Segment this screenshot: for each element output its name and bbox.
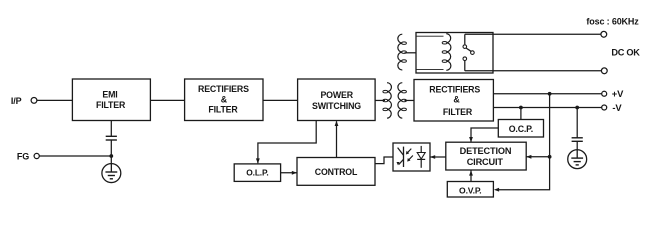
arrow O.V.P. into DETECTION bottom: [469, 170, 473, 175]
arrow opto output to detection: [430, 155, 435, 159]
block EMI FILTER: [72, 79, 150, 121]
wire relay to DC OK + terminal: [465, 33, 601, 35]
block CONTROL: [297, 158, 375, 186]
wire -V rail: [493, 107, 601, 109]
block O.C.P.: [498, 120, 543, 138]
svg-text:RECTIFIERS: RECTIFIERS: [198, 84, 249, 94]
capacitor Y-cap under EMI filter: [110, 121, 112, 137]
wire O.C.P. to detection circuit: [471, 128, 498, 142]
svg-text:DETECTION: DETECTION: [460, 146, 512, 156]
arrow into POWER SWITCHING: [335, 121, 339, 126]
terminal +V: [602, 91, 607, 96]
relay coil inside aux block: [416, 35, 444, 37]
arrow into O.L.P.: [256, 158, 260, 163]
block DC OK relay / aux circuit: [416, 33, 493, 74]
junction -V to O.C.P.: [519, 106, 523, 110]
svg-text:FILTER: FILTER: [208, 105, 238, 115]
svg-text:CIRCUIT: CIRCUIT: [467, 157, 504, 167]
wire power switching down to O.L.P.: [258, 121, 316, 164]
junction -V to output cap: [575, 106, 579, 110]
wire I/P to EMI FILTER: [37, 99, 73, 101]
svg-text:FILTER: FILTER: [96, 100, 126, 110]
terminal DC OK bottom: [601, 68, 607, 74]
svg-text:DC OK: DC OK: [611, 47, 640, 57]
wire opto to detection circuit: [430, 156, 446, 158]
svg-text:+V: +V: [612, 88, 624, 99]
svg-text:O.L.P.: O.L.P.: [246, 168, 268, 178]
opto light arrows: [407, 149, 411, 154]
ground earth symbol (output): [568, 150, 587, 169]
block POWER SWITCHING: [298, 79, 376, 121]
junction FG node: [109, 154, 113, 158]
svg-text:CONTROL: CONTROL: [315, 167, 358, 177]
arrow into DETECTION top: [469, 137, 473, 142]
block DETECTION CIRCUIT: [446, 142, 526, 170]
transformer T1 auxiliary winding: [398, 34, 402, 70]
svg-text:O.C.P.: O.C.P.: [509, 124, 533, 134]
ground earth symbol (input): [102, 164, 121, 183]
svg-text:POWER: POWER: [320, 90, 353, 100]
wire cap to FG junction and ground: [110, 140, 112, 164]
wire +V sense down to O.V.P. feed: [498, 94, 550, 190]
block RECTIFIERS & FILTER (output): [414, 80, 493, 122]
terminal I/P: [31, 98, 37, 104]
transformer T1 primary winding: [375, 99, 385, 101]
block RECTIFIERS & FILTER (input): [185, 79, 263, 121]
terminal FG: [34, 153, 39, 158]
block O.V.P.: [447, 182, 493, 198]
wire CONTROL up to power switching: [336, 121, 338, 157]
block O.L.P.: [234, 164, 280, 182]
wire relay to DC OK - terminal: [465, 70, 602, 72]
junction sense node: [548, 155, 552, 159]
arrow into DETECTION right: [526, 155, 531, 159]
svg-text:RECTIFIERS: RECTIFIERS: [429, 84, 480, 94]
opto phototransistor: [403, 147, 405, 167]
svg-text:EMI: EMI: [102, 90, 117, 100]
svg-text:fosc : 60KHz: fosc : 60KHz: [586, 16, 639, 26]
junction +V sense: [548, 92, 552, 96]
svg-text:&: &: [453, 94, 460, 104]
svg-text:O.V.P.: O.V.P.: [459, 185, 482, 195]
wire O.L.P. to CONTROL: [281, 172, 297, 174]
wire +V rail: [493, 93, 601, 95]
opto-coupler U1: [393, 143, 430, 171]
wire cap to ground: [576, 141, 578, 150]
wire -V down to O.C.P.: [520, 108, 522, 120]
wire O.V.P. up to detection: [470, 170, 472, 181]
wire CONTROL to opto-coupler: [375, 157, 393, 164]
svg-text:-V: -V: [612, 102, 622, 113]
wire rectifiers to power switching: [263, 99, 298, 101]
arrow into CONTROL: [292, 171, 297, 175]
transformer T1 secondary winding: [398, 83, 402, 119]
wire -V down to output cap: [576, 108, 578, 138]
wire detection to sense rail: [526, 156, 549, 158]
relay contact switch: [464, 34, 466, 44]
capacitor output filter: [572, 137, 583, 139]
arrow into O.V.P.: [494, 188, 499, 192]
svg-text:SWITCHING: SWITCHING: [312, 101, 361, 111]
terminal DC OK top: [601, 31, 607, 37]
opto LED: [420, 146, 422, 168]
svg-text:FILTER: FILTER: [443, 107, 473, 117]
svg-text:FG: FG: [17, 151, 29, 161]
svg-text:I/P: I/P: [11, 96, 22, 106]
svg-text:&: &: [221, 94, 228, 104]
terminal -V: [602, 105, 607, 110]
wire FG to junction: [39, 155, 111, 157]
wire EMI to rectifiers: [150, 99, 184, 101]
